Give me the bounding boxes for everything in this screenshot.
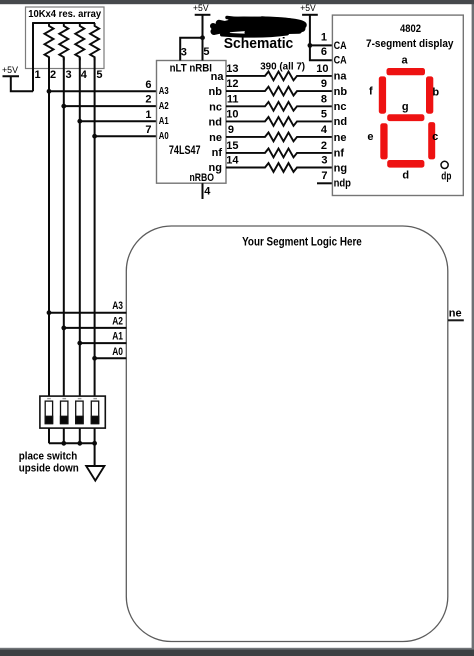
segment c [428, 122, 435, 159]
svg-text:A1: A1 [159, 115, 169, 127]
svg-text:nf: nf [334, 148, 345, 160]
svg-text:1: 1 [35, 69, 41, 81]
svg-text:+5V: +5V [300, 3, 316, 14]
svg-text:5: 5 [203, 46, 209, 58]
ground [86, 466, 104, 481]
segment logic block (rounded) [126, 226, 448, 642]
svg-text:5: 5 [96, 69, 102, 81]
svg-text:3: 3 [66, 69, 72, 81]
svg-text:place switch: place switch [19, 450, 78, 462]
segment g [387, 114, 424, 121]
svg-text:3: 3 [321, 155, 327, 167]
svg-text:2: 2 [50, 69, 56, 81]
svg-text:2: 2 [145, 94, 151, 106]
U1 input pin numbers 6 2 1 7 [145, 79, 151, 136]
svg-text:A0: A0 [112, 346, 123, 358]
svg-text:nc: nc [334, 101, 347, 113]
svg-text:7: 7 [321, 170, 327, 182]
svg-text:A0: A0 [159, 130, 169, 142]
svg-text:Schematic: Schematic [224, 36, 293, 52]
junction CA [308, 43, 313, 48]
junction A0 lower [92, 356, 97, 361]
place switch upside down note [19, 450, 79, 474]
resistor R-f 390 [226, 149, 332, 158]
resistor RN1-C (10K) [75, 23, 84, 60]
svg-text:ne: ne [449, 307, 462, 319]
U1 output pin numbers 13 12 11 10 9 15 14 [226, 63, 239, 167]
svg-text:9: 9 [228, 124, 234, 136]
segment letter labels [367, 54, 451, 182]
display pin numbers 10 9 8 5 4 2 3 7 [316, 63, 328, 182]
resistor RN1-D (10K) [90, 23, 99, 60]
wire switch 1 to ground bus [48, 428, 50, 443]
wire A3 to logic block [49, 312, 126, 314]
svg-text:e: e [367, 131, 373, 143]
RN1 pin number labels 1-5 [35, 69, 103, 81]
segment b [426, 76, 433, 113]
svg-text:nd: nd [334, 116, 347, 128]
junction A1 lower [77, 341, 82, 346]
svg-text:+5V: +5V [2, 65, 19, 76]
junction A1 upper [77, 119, 82, 124]
wire +5V to display CA pin 1 [310, 15, 333, 46]
svg-text:d: d [402, 170, 409, 182]
svg-text:4: 4 [81, 69, 88, 81]
display CA pin 6 label [321, 46, 327, 58]
wire switch 2 to ground bus [63, 428, 65, 443]
wire +5V to U1 pin 3 [180, 38, 202, 61]
svg-text:c: c [432, 131, 438, 143]
resistor array RN1 box [26, 7, 105, 69]
U1 pin 4 wire (nRBO) [202, 183, 204, 199]
svg-text:Your Segment Logic Here: Your Segment Logic Here [242, 235, 362, 249]
svg-text:4: 4 [204, 186, 211, 198]
svg-text:nb: nb [334, 86, 348, 98]
wire bus A2 vertical (RN1 pin3 to switch) [63, 58, 65, 397]
svg-text:ne: ne [334, 132, 347, 144]
svg-text:f: f [369, 85, 373, 97]
wire ne stub [448, 319, 464, 321]
svg-text:b: b [432, 87, 439, 99]
wire switch 4 to ground bus [94, 428, 96, 443]
svg-text:CA: CA [334, 55, 347, 67]
svg-text:5: 5 [321, 108, 327, 120]
svg-text:14: 14 [226, 155, 239, 167]
svg-text:6: 6 [145, 79, 151, 91]
wire A0 to logic block [95, 357, 127, 359]
resistor R-b 390 [226, 87, 332, 96]
wire switch 3 to ground bus [79, 428, 81, 443]
resistor R-g 390 [226, 163, 332, 172]
svg-text:nRBO: nRBO [190, 172, 215, 184]
wire ndp stub [317, 182, 332, 184]
svg-text:10: 10 [226, 108, 238, 120]
svg-text:11: 11 [227, 93, 239, 105]
op-amp U1 74LS47 box [157, 61, 227, 184]
RN1 common top bus wire [33, 22, 95, 24]
switch S1-3 slider [76, 401, 83, 424]
svg-text:10: 10 [316, 63, 328, 75]
node A2 label [112, 315, 123, 327]
wire A2 to U1 pin 2 [64, 105, 157, 107]
svg-text:13: 13 [226, 63, 238, 75]
svg-text:ng: ng [334, 162, 347, 174]
+5V supply symbol (U1) [193, 3, 210, 15]
segment e [380, 123, 387, 159]
junction A2 lower [61, 326, 66, 331]
resistor RN1-B (10K) [59, 23, 68, 60]
wire A0 to U1 pin 7 [95, 135, 157, 137]
node ne label (right edge) [449, 307, 462, 319]
svg-text:12: 12 [226, 78, 238, 90]
display CA pin 1 label [321, 31, 327, 43]
svg-text:+5V: +5V [193, 3, 209, 14]
decimal point dp [441, 161, 448, 168]
svg-text:6: 6 [321, 46, 327, 58]
wire bus A0 vertical (RN1 pin5 to switch) [94, 58, 96, 397]
segment d [387, 160, 424, 168]
svg-text:CA: CA [334, 40, 347, 52]
wire A1 to logic block [80, 342, 127, 344]
wire A2 to logic block [64, 327, 127, 329]
svg-text:upside down: upside down [19, 462, 79, 474]
node A1 label [112, 331, 123, 343]
svg-text:2: 2 [321, 140, 327, 152]
svg-text:g: g [402, 101, 409, 113]
segment f [379, 76, 386, 113]
junction A0 upper [92, 134, 97, 139]
switch S1-4 slider [91, 401, 98, 424]
U1 pin 4 label [204, 186, 211, 198]
junction bus 3 [77, 441, 82, 446]
svg-text:nLT nRBI: nLT nRBI [170, 63, 212, 75]
svg-text:9: 9 [321, 78, 327, 90]
svg-text:3: 3 [181, 47, 187, 59]
svg-text:ne: ne [209, 132, 222, 144]
wire +5V to RN1 pin 1 [11, 76, 33, 91]
junction bus 2 [61, 441, 66, 446]
svg-text:nb: nb [209, 86, 223, 98]
svg-text:A1: A1 [112, 331, 123, 343]
svg-text:4802: 4802 [400, 23, 421, 35]
svg-text:7-segment display: 7-segment display [366, 38, 454, 50]
RN1 pin 1 common wire [32, 22, 34, 91]
svg-text:dp: dp [441, 171, 451, 183]
wire bus A3 vertical (RN1 pin2 to switch) [48, 58, 50, 397]
svg-text:15: 15 [226, 140, 238, 152]
segment a [387, 68, 426, 75]
junction U1 pins 3/5 [200, 35, 205, 40]
svg-text:74LS47: 74LS47 [169, 143, 201, 157]
resistor R-c 390 [226, 102, 332, 111]
U1 pin 3 label [181, 47, 187, 59]
svg-text:nf: nf [212, 147, 223, 159]
svg-text:10Kx4 res. array: 10Kx4 res. array [28, 9, 101, 20]
svg-text:1: 1 [145, 109, 151, 121]
resistor R-a 390 [226, 72, 332, 81]
wire bus A1 vertical (RN1 pin4 to switch) [79, 58, 81, 397]
svg-text:A3: A3 [159, 85, 169, 97]
svg-text:ndp: ndp [334, 178, 352, 190]
svg-text:1: 1 [321, 31, 327, 43]
DIP switch S1 [40, 396, 105, 428]
junction A2 upper [61, 104, 66, 109]
resistor R-d 390 [226, 117, 332, 126]
svg-text:nd: nd [209, 117, 222, 129]
switch S1-2 slider [61, 401, 68, 424]
svg-text:4: 4 [321, 124, 328, 136]
svg-text:8: 8 [321, 93, 327, 105]
junction A3 lower [47, 310, 52, 315]
svg-text:a: a [401, 54, 408, 66]
scribble blackout mark [213, 18, 303, 36]
svg-text:nc: nc [209, 101, 222, 113]
U1 pin 5 label [203, 46, 209, 58]
svg-text:7: 7 [145, 124, 151, 136]
wire bus to ground [94, 443, 96, 466]
+5V supply symbol (display CA) [300, 3, 318, 15]
390 ohm value label [260, 61, 305, 73]
wire A3 to U1 pin 6 [49, 90, 157, 92]
Schematic caption [224, 36, 293, 52]
switch S1-1 slider [45, 401, 52, 424]
7-segment display U2 4802 box [332, 15, 463, 195]
junction bus 4 [92, 441, 97, 446]
node A0 label [112, 346, 123, 358]
junction A3 upper [47, 89, 52, 94]
ground bus wire [49, 442, 95, 444]
svg-text:390 (all 7): 390 (all 7) [260, 61, 305, 73]
svg-text:na: na [211, 71, 225, 83]
wire +5V to U1 pin 5 [202, 15, 204, 61]
resistor R-e 390 [226, 133, 332, 142]
svg-text:na: na [334, 71, 348, 83]
svg-text:A2: A2 [112, 315, 123, 327]
+5V supply symbol (left) [2, 65, 19, 77]
svg-text:A3: A3 [112, 300, 123, 312]
node A3 label [112, 300, 123, 312]
svg-text:A2: A2 [159, 100, 169, 112]
wire A1 to U1 pin 1 [80, 120, 157, 122]
wire +5V to display CA pin 6 [310, 45, 333, 60]
resistor RN1-A (10K) [45, 23, 54, 60]
